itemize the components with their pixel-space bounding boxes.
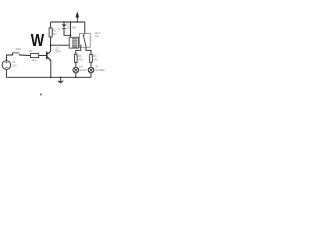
power arrow VCC: [76, 13, 78, 23]
wire R4 to LED D2: [75, 62, 77, 67]
stray dot: [40, 94, 41, 96]
svg-text:1N4148: 1N4148: [66, 26, 76, 30]
relay switch lever: [83, 35, 86, 46]
wire LED D4 to bottom rail: [90, 73, 92, 77]
relay contact posts: [80, 45, 82, 48]
wire rail left drop into R2: [50, 22, 52, 28]
wire top power rail: [51, 21, 85, 23]
wire D1 bottom L to coil stub: [64, 29, 71, 36]
svg-text:12V: 12V: [12, 64, 17, 68]
svg-text:330: 330: [78, 57, 83, 61]
wire bottom rail: [6, 76, 91, 78]
wire LED D2 to bottom rail: [75, 73, 77, 77]
resistor R3: [90, 54, 98, 62]
svg-text:4k7: 4k7: [53, 32, 58, 36]
wire D1 top stub: [63, 22, 65, 24]
wire relay coil top stub: [70, 22, 72, 38]
wire emitter down to rail: [50, 61, 52, 78]
ground: [57, 77, 64, 83]
wire collector node to relay coil: [51, 44, 70, 46]
svg-text:LED-GREEN: LED-GREEN: [95, 69, 105, 72]
relay contact box RL1: [79, 34, 90, 48]
LED D4: [88, 64, 105, 73]
battery source V1: [2, 60, 17, 69]
svg-text:D4: D4: [95, 64, 99, 68]
wire relay NO pin jog to R3: [86, 47, 91, 54]
svg-text:SW1: SW1: [15, 47, 21, 51]
wire R2 bottom to collector node: [50, 37, 52, 51]
transistor Q1: [47, 51, 51, 61]
wire V1 top to switch: [6, 55, 12, 60]
diode D1: [62, 22, 76, 29]
svg-text:2: 2: [92, 40, 94, 42]
resistor R1: [29, 49, 39, 62]
wire R3 to LED D4: [90, 62, 92, 67]
switch SW1: [12, 47, 22, 55]
junction dots: [50, 21, 78, 78]
svg-text:LED-RED: LED-RED: [79, 69, 86, 72]
svg-text:1k: 1k: [58, 28, 61, 31]
svg-text:NPN: NPN: [55, 50, 61, 54]
svg-text:5V: 5V: [95, 34, 98, 38]
resistor R2: [49, 28, 61, 37]
svg-text:V1: V1: [12, 60, 16, 64]
LED D2: [73, 64, 87, 73]
resistor R4: [75, 54, 83, 62]
wire switch to R1: [20, 54, 31, 57]
svg-text:W: W: [31, 30, 45, 50]
svg-text:R2: R2: [53, 29, 57, 33]
svg-text:D2: D2: [79, 64, 83, 68]
wire V1 bottom to rail: [5, 70, 7, 78]
svg-text:330: 330: [93, 58, 98, 62]
relay coil RL1: [69, 37, 78, 48]
wire relay common drop: [84, 22, 86, 35]
wire relay NC pin jog to R4: [76, 47, 81, 54]
svg-text:10k: 10k: [32, 58, 37, 62]
wire R1 to base: [39, 55, 47, 57]
